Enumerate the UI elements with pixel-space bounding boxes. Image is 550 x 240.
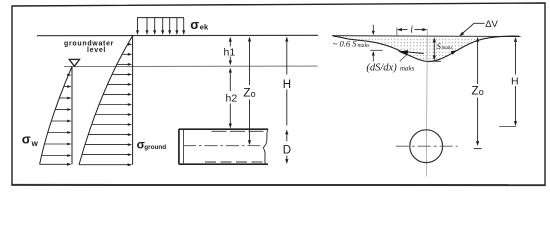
sigma_ground pressure arrow at y=74	[112, 73, 128, 75]
figure border frame	[12, 3, 545, 185]
sigma_ground pressure arrow at y=54	[122, 53, 128, 55]
settlement trough curve	[333, 36, 519, 62]
svg-text:Z: Z	[471, 84, 478, 98]
sigma_ground bottom edge with arrowhead	[79, 164, 128, 166]
svg-text:ΔV: ΔV	[485, 19, 498, 30]
svg-text:ground: ground	[144, 144, 166, 151]
sigma_ground pressure arrow at y=125	[92, 124, 129, 126]
Smaks dimension shaft	[433, 42, 435, 56]
sigma_ground pressure arrow at y=135	[88, 134, 128, 136]
ground surface line (left diagram)	[37, 34, 318, 36]
dimension Zo (left) shaft	[249, 41, 251, 85]
0.6Smaks level tick	[370, 49, 382, 51]
dimension h1 arrowheads	[229, 37, 232, 42]
tunnel lining dashes below top edge	[212, 130, 264, 132]
svg-text:Z: Z	[243, 86, 250, 100]
tunnel lining dashes above bottom edge	[205, 161, 264, 163]
trough vertical centreline	[426, 29, 427, 177]
dimension h1 shaft	[229, 39, 231, 47]
leader from label to tangent arrow	[400, 54, 408, 61]
sigma_w pressure arrow at y=144	[45, 143, 68, 145]
0.6Smaks dimension lower arrow (below curve)	[372, 54, 374, 62]
svg-text:h2: h2	[226, 92, 238, 104]
sigma_ground pressure arrow at y=44	[127, 43, 130, 45]
sigma_w pressure arrow at y=132	[48, 132, 68, 134]
sigma_ground pressure arrow at y=104	[99, 104, 128, 106]
sigma_ground pressure arrow at y=94	[103, 93, 128, 95]
(dS/dx)maks tangent line	[407, 52, 424, 54]
sigma_ground sloped edge	[79, 36, 133, 165]
surcharge arrow x=184	[183, 18, 185, 32]
svg-text:D: D	[283, 145, 291, 157]
surcharge arrow x=170	[169, 18, 171, 32]
svg-text:ek: ek	[200, 22, 209, 31]
svg-text:o: o	[251, 89, 256, 99]
sigma_w pressure arrow at y=121	[51, 120, 67, 122]
sigma_w pressure arrow at y=75	[67, 74, 70, 76]
sigma_w bottom edge with arrowhead	[40, 163, 68, 165]
tunnel centre dash-dot line	[183, 145, 264, 147]
sigma_w pressure arrow at y=86	[64, 86, 68, 88]
sigma_ground pressure arrow at y=155	[82, 154, 128, 156]
sigma_w sloped edge	[40, 67, 72, 165]
Zo (right) end tick	[474, 148, 482, 150]
surcharge arrow x=147	[146, 18, 148, 32]
svg-text:H: H	[283, 79, 291, 91]
dimension i line	[400, 29, 408, 31]
Smaks bottom tick	[428, 60, 441, 62]
sigma_ground pressure arrow at y=145	[85, 144, 128, 146]
tunnel top edge	[179, 128, 268, 130]
dimension D arrowheads	[285, 129, 288, 134]
surcharge load top line	[137, 17, 184, 19]
H (right) end tick	[499, 126, 516, 128]
ground surface line (right diagram)	[332, 35, 521, 38]
svg-text:σ: σ	[22, 131, 31, 146]
svg-text:h1: h1	[224, 46, 236, 58]
dimension H (left) arrowheads	[285, 37, 288, 42]
surcharge arrow x=177	[176, 18, 178, 32]
svg-text:i: i	[410, 25, 413, 36]
0.6Smaks dimension upper arrow (above ground line)	[372, 25, 374, 33]
dimension H (left) shaft	[286, 41, 288, 75]
dimension Zo (right) shaft	[477, 41, 479, 84]
groundwater symbol (inverted triangle)	[69, 59, 79, 66]
dimension Zo (left) arrowheads	[248, 37, 251, 42]
tunnel cross-section circle	[410, 130, 443, 163]
sigma_ground pressure arrow at y=84	[108, 83, 129, 85]
sigma_ground pressure arrow at y=115	[95, 114, 128, 116]
dimension h2 arrowheads	[229, 68, 232, 73]
small arrowhead on curve right limb	[451, 50, 457, 55]
svg-text:(dS/dx): (dS/dx)	[366, 62, 397, 73]
water pressure diagram sigma_w : vertical edge	[71, 67, 73, 165]
sigma_w pressure arrow at y=110	[55, 109, 67, 111]
stippled settlement volume area	[333, 36, 519, 62]
svg-text:σ: σ	[190, 17, 199, 32]
svg-text:maks: maks	[400, 64, 415, 72]
dimension i left extension tick	[396, 28, 398, 37]
tunnel left end cap outer	[178, 129, 180, 164]
tunnel broken-end (break line)	[263, 129, 268, 164]
svg-text:maks: maks	[441, 45, 452, 51]
surcharge arrow x=163	[162, 18, 164, 32]
delta-V leader line	[461, 23, 485, 35]
svg-text:level: level	[87, 47, 106, 54]
dimension D shaft	[286, 134, 288, 142]
sigma_w pressure arrow at y=98	[59, 97, 67, 99]
svg-text:maks: maks	[358, 43, 371, 49]
sigma_ground pressure arrow at y=64	[117, 63, 128, 65]
ground pressure diagram sigma_ground : vertical edge	[132, 36, 134, 165]
sigma_w pressure arrow at y=156	[42, 155, 68, 157]
dimension h2 shaft	[229, 72, 231, 92]
surcharge arrow x=138	[137, 18, 139, 32]
frame bottom heavy edge	[11, 184, 545, 186]
(dS/dx)maks large arrowhead	[398, 50, 408, 55]
svg-text:o: o	[479, 87, 484, 97]
dimension H (right) shaft	[515, 41, 517, 75]
svg-text:~ 0.6 S: ~ 0.6 S	[333, 38, 357, 48]
tunnel left end cap inner line	[183, 130, 185, 163]
svg-text:w: w	[31, 139, 39, 148]
svg-text:H: H	[511, 75, 519, 87]
groundwater level line	[64, 65, 318, 68]
surcharge arrow x=155	[154, 18, 156, 32]
tunnel bottom edge	[179, 163, 268, 165]
circle horizontal centreline	[396, 145, 458, 147]
